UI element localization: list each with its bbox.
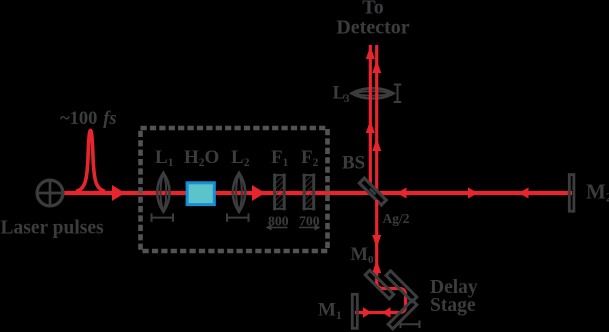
svg-text:Ag/2: Ag/2 <box>383 211 410 226</box>
focal marker right of L3 <box>394 85 401 103</box>
filter F1 <box>273 174 286 211</box>
wire arrowhead after source <box>112 185 125 201</box>
wire arrows on M1 beam <box>363 307 372 317</box>
travel marker under delay stage <box>401 321 420 329</box>
wire main horizontal beam <box>64 191 572 195</box>
wire arrowhead after L2 <box>252 185 265 201</box>
wire double vertical beam above BS <box>369 45 372 185</box>
svg-text:Laser pulses: Laser pulses <box>1 218 105 239</box>
wire arrow down below BS <box>372 235 381 248</box>
delay stage mirror upper <box>386 271 417 302</box>
wire arrow up toward BS <box>372 260 381 273</box>
wire beam below BS with delay-loop path <box>355 200 406 313</box>
svg-text:Detector: Detector <box>336 17 409 39</box>
wire arrows upward top pair <box>366 46 375 59</box>
laser source symbol <box>37 180 63 206</box>
svg-text:Stage: Stage <box>430 295 476 316</box>
mirror M0 <box>365 270 394 299</box>
mirror M1 <box>352 294 357 328</box>
H2O cell <box>187 183 214 205</box>
filter F2 <box>303 174 316 211</box>
dashed box <box>141 128 328 251</box>
label 800 with left arrow <box>266 213 289 230</box>
pulse waveform <box>76 130 105 191</box>
wire arrows upward below L3 <box>366 120 375 133</box>
focal marker under L1 <box>152 213 174 221</box>
beam splitter BS <box>359 178 386 205</box>
delay stage mirror lower <box>388 300 417 329</box>
lens L2 <box>233 173 245 212</box>
label 700 with right arrow <box>299 213 321 230</box>
mirror M2 <box>569 175 574 212</box>
lens L3 <box>352 88 394 98</box>
focal marker under L2 <box>227 213 249 221</box>
svg-text:M2: M2 <box>586 180 609 205</box>
svg-text:~100 fs: ~100 fs <box>60 109 117 129</box>
lens L1 <box>157 173 169 212</box>
svg-text:BS: BS <box>342 153 365 174</box>
wire arrows on BS-M2 beam <box>397 188 407 199</box>
